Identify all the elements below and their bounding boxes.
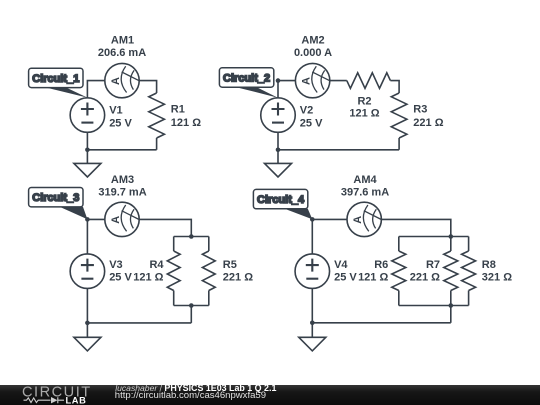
parallel top rail c3 — [174, 236, 209, 238]
wire V2 bottom — [277, 132, 279, 149]
wire ammeter right to drop — [139, 219, 191, 236]
parallel bottom rail c4 — [399, 305, 469, 307]
resistor R5 — [202, 251, 215, 291]
svg-text:R2: R2 — [357, 95, 371, 107]
svg-text:121 Ω: 121 Ω — [349, 107, 379, 119]
flag label Circuit_3 — [29, 188, 88, 220]
ground c1 — [74, 150, 101, 177]
svg-text:AM1: AM1 — [111, 35, 134, 47]
wire R1 bottom — [156, 138, 158, 150]
resistor R4 — [167, 251, 180, 291]
resistor R8 — [462, 251, 476, 291]
parallel top rail c4 — [399, 236, 469, 238]
wire bottom rail c2 — [278, 149, 399, 151]
voltage source V1 — [70, 98, 105, 133]
svg-text:R1: R1 — [171, 104, 185, 116]
ground c2 — [265, 150, 292, 177]
svg-text:R8: R8 — [482, 259, 496, 271]
svg-text:Circuit_3: Circuit_3 — [32, 192, 79, 204]
wire bottom rail c1 — [87, 149, 156, 151]
svg-text:206.6 mA: 206.6 mA — [98, 47, 146, 59]
resistor R7 — [444, 251, 458, 291]
ground c4 — [299, 323, 326, 351]
wire ammeter right to R1 top — [139, 81, 156, 93]
wire V1 top to ammeter left — [87, 81, 105, 98]
svg-text:R7: R7 — [426, 259, 440, 271]
resistor R3 — [391, 93, 407, 138]
svg-text:321 Ω: 321 Ω — [482, 272, 512, 284]
ammeter U-AM4 — [347, 202, 381, 236]
ground c3 — [74, 323, 101, 351]
resistor R6 — [392, 251, 406, 291]
svg-text:Circuit_1: Circuit_1 — [32, 73, 79, 85]
flag label Circuit_4 — [253, 189, 312, 219]
R5 stubs — [208, 237, 210, 306]
ammeter U-AM3 — [105, 202, 139, 236]
svg-text:25 V: 25 V — [334, 272, 357, 284]
node dots c4 — [310, 217, 315, 222]
svg-text:Circuit_2: Circuit_2 — [223, 73, 270, 85]
wire ammeter right to R2 — [330, 80, 347, 82]
svg-text:AM3: AM3 — [111, 174, 134, 186]
svg-text:25 V: 25 V — [109, 117, 132, 129]
wire bottom rail c3 — [87, 322, 191, 324]
wire node to ammeter left — [87, 218, 104, 220]
svg-text:R6: R6 — [374, 259, 388, 271]
wire node to ammeter left — [312, 218, 347, 220]
ammeter U-AM2 — [295, 63, 329, 97]
voltage source V2 — [261, 98, 296, 133]
wire R3 bottom — [398, 138, 400, 150]
svg-text:221 Ω: 221 Ω — [223, 272, 253, 284]
R8 stubs — [468, 237, 470, 306]
CircuitLab logo — [0, 384, 110, 405]
wire ammeter right to drop — [381, 219, 450, 236]
svg-text:221 Ω: 221 Ω — [410, 272, 440, 284]
resistor R1 — [149, 93, 165, 138]
svg-text:A: A — [301, 77, 313, 85]
svg-text:A: A — [352, 216, 364, 224]
parallel bottom rail c3 — [174, 305, 209, 307]
svg-text:A: A — [110, 77, 122, 85]
svg-text:Circuit_4: Circuit_4 — [257, 194, 305, 206]
node junction c1 bottom — [85, 148, 90, 153]
wire V3 bottom — [86, 289, 88, 323]
wire R2 to R3 top — [390, 81, 399, 93]
R7 stubs — [450, 237, 452, 306]
svg-text:R5: R5 — [223, 259, 237, 271]
wire V2 top to ammeter left — [278, 81, 295, 98]
svg-text:V4: V4 — [334, 259, 348, 271]
svg-text:A: A — [110, 216, 122, 224]
wire rail drop to bottom — [450, 306, 452, 323]
R4 stubs — [173, 237, 175, 306]
wire V3 top stub — [86, 219, 88, 254]
flag label Circuit_2 — [219, 68, 278, 98]
svg-text:397.6 mA: 397.6 mA — [341, 186, 389, 198]
node junction c2 bottom — [276, 148, 281, 153]
svg-text:AM2: AM2 — [301, 35, 324, 47]
ammeter U-AM1 — [105, 63, 139, 97]
svg-text:0.000 A: 0.000 A — [294, 47, 332, 59]
svg-text:121 Ω: 121 Ω — [133, 272, 163, 284]
wire V4 bottom — [311, 289, 313, 323]
svg-text:R4: R4 — [149, 259, 164, 271]
svg-text:121 Ω: 121 Ω — [358, 272, 388, 284]
R6 stubs — [398, 237, 400, 306]
svg-text:R3: R3 — [413, 104, 427, 116]
node dots c3 — [85, 217, 90, 222]
wire bottom rail c4 — [312, 322, 451, 324]
wire rail drop to bottom — [190, 306, 192, 323]
svg-text:V2: V2 — [300, 104, 313, 116]
node junction c2 top — [276, 78, 281, 83]
voltage source V4 — [295, 254, 330, 289]
footer text line 2 — [115, 391, 266, 400]
footer text line 1 — [115, 384, 276, 392]
svg-text:V1: V1 — [109, 104, 122, 116]
svg-text:25 V: 25 V — [300, 117, 323, 129]
footer attribution bar — [0, 385, 540, 405]
svg-text:25 V: 25 V — [109, 272, 132, 284]
svg-text:319.7 mA: 319.7 mA — [98, 186, 146, 198]
svg-text:221 Ω: 221 Ω — [413, 117, 443, 129]
wire V4 top stub — [311, 219, 313, 254]
resistor R2 — [347, 73, 391, 89]
svg-text:LAB: LAB — [66, 395, 87, 405]
svg-text:121 Ω: 121 Ω — [171, 117, 201, 129]
wire V1 bottom — [86, 132, 88, 149]
voltage source V3 — [70, 254, 105, 289]
flag label Circuit_1 — [29, 68, 88, 97]
svg-text:AM4: AM4 — [353, 174, 377, 186]
svg-text:V3: V3 — [109, 259, 122, 271]
